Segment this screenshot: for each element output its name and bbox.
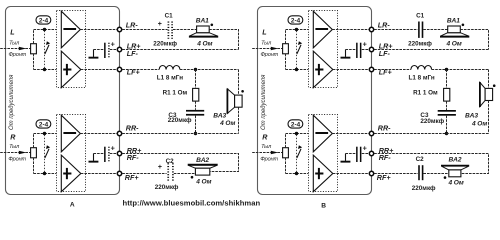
capacitor C3 (A) bbox=[168, 110, 204, 124]
wire op-amp U1 out to LR- bbox=[80, 29, 117, 31]
wire C1 to BA1 (A) bbox=[173, 29, 197, 31]
svg-text:Фронт: Фронт bbox=[260, 157, 278, 163]
svg-text:RF-: RF- bbox=[127, 153, 140, 162]
svg-text:Фронт: Фронт bbox=[8, 157, 26, 163]
svg-text:BA1: BA1 bbox=[447, 17, 460, 24]
svg-text:RF+: RF+ bbox=[125, 173, 140, 182]
svg-text:LF+: LF+ bbox=[127, 68, 141, 77]
svg-text:От предусилителя: От предусилителя bbox=[9, 74, 15, 130]
wire LR- row B bbox=[374, 29, 418, 31]
wire R1 to C3 (A) bbox=[195, 101, 197, 110]
svg-text:C1: C1 bbox=[165, 12, 174, 19]
svg-text:BA1: BA1 bbox=[196, 17, 209, 24]
inductor L1 (A) bbox=[159, 66, 180, 70]
svg-text:L1 8 мГн: L1 8 мГн bbox=[409, 74, 435, 81]
wire op-amp U3 out to LF+ bbox=[333, 69, 369, 71]
wire RR+ row A bbox=[122, 154, 238, 172]
svg-text:Тыл: Тыл bbox=[261, 41, 272, 47]
svg-text:LF-: LF- bbox=[379, 49, 391, 58]
wire op-amp U4 out to RR- bbox=[332, 133, 369, 135]
wire junction down to R1 (B) bbox=[446, 70, 448, 89]
capacitor to ground R (box B) bbox=[341, 143, 370, 162]
svg-text:BA3: BA3 bbox=[465, 112, 478, 119]
svg-text:А: А bbox=[70, 202, 75, 209]
svg-text:RR-: RR- bbox=[378, 123, 391, 132]
wire RF+ row B bbox=[374, 173, 418, 175]
capacitor C1 (A, dotted) bbox=[153, 12, 177, 47]
svg-text:Фронт: Фронт bbox=[261, 52, 279, 58]
svg-text:L: L bbox=[262, 28, 266, 37]
input attenuator R (box B) bbox=[252, 120, 308, 175]
head unit box B bbox=[258, 7, 372, 195]
wire BA3 down to RR- row (B) bbox=[488, 101, 490, 134]
capacitor C2 (B) bbox=[412, 156, 436, 192]
terminal LR- (B) bbox=[369, 27, 373, 31]
svg-text:C2: C2 bbox=[166, 158, 175, 165]
svg-text:RF-: RF- bbox=[379, 153, 392, 162]
svg-text:4 Ом: 4 Ом bbox=[471, 121, 487, 128]
wire C3 to RR- row (B) bbox=[446, 116, 448, 134]
resistor R1 (A) bbox=[193, 88, 199, 101]
wire LF+ row A bbox=[122, 69, 159, 71]
wire C2 to BA2 (A) bbox=[174, 173, 196, 175]
wire C2 to BA2 (B) bbox=[423, 173, 448, 175]
svg-text:RR-: RR- bbox=[126, 123, 139, 132]
svg-text:220мкф: 220мкф bbox=[408, 41, 432, 48]
terminal RR+/RF- (A) bbox=[117, 151, 121, 155]
svg-text:4 Ом: 4 Ом bbox=[448, 179, 464, 186]
svg-text:+: + bbox=[158, 21, 162, 28]
svg-text:220мкф: 220мкф bbox=[168, 117, 192, 124]
node junction C3/RR- (A) bbox=[194, 132, 197, 135]
svg-text:BA2: BA2 bbox=[449, 157, 462, 164]
dotted plate of capacitor L (box A) bbox=[108, 43, 110, 58]
wire R1 to C3 (B) bbox=[446, 101, 448, 110]
speaker BA2 (B) bbox=[441, 157, 469, 187]
terminal RR- (B) bbox=[369, 131, 373, 135]
svg-text:http://www.bluesmobil.com/shik: http://www.bluesmobil.com/shikhman bbox=[123, 198, 261, 207]
svg-text:R1 1 Ом: R1 1 Ом bbox=[163, 89, 188, 96]
solid plate of capacitor R (box B) bbox=[360, 147, 362, 162]
wire LF+ row B bbox=[374, 69, 411, 71]
svg-text:В: В bbox=[321, 202, 326, 209]
svg-text:LF+: LF+ bbox=[379, 68, 393, 77]
terminal LF+ (A) bbox=[117, 67, 121, 71]
head unit box A bbox=[6, 7, 120, 195]
wire BA1 right loop (B) bbox=[460, 30, 488, 50]
terminal LR+/LF- (B) bbox=[369, 47, 373, 51]
capacitor to ground L (box B) bbox=[341, 39, 370, 58]
speaker BA3 (B) bbox=[465, 82, 496, 128]
speaker BA1 (A) bbox=[189, 17, 218, 47]
svg-text:BA3: BA3 bbox=[213, 112, 226, 119]
speaker BA2 (A) bbox=[188, 157, 218, 186]
wire RR+ row B bbox=[374, 154, 488, 174]
wire RF+ row A bbox=[122, 173, 166, 175]
wire down to BA3 (A) bbox=[238, 70, 240, 96]
node junction C3/RR- (B) bbox=[445, 132, 448, 135]
svg-text:220мкф: 220мкф bbox=[420, 118, 444, 125]
input attenuator R (box A) bbox=[0, 120, 56, 175]
svg-text:C1: C1 bbox=[416, 12, 425, 19]
svg-text:От предусилителя: От предусилителя bbox=[261, 74, 267, 130]
capacitor C1 (B) bbox=[408, 12, 432, 47]
wire L1 to BA3 (A) bbox=[180, 69, 239, 71]
wire junction down to R1 (A) bbox=[195, 70, 197, 89]
svg-text:4 Ом: 4 Ом bbox=[195, 179, 211, 186]
op-amp U3 (L channel, box B) bbox=[309, 11, 338, 88]
node junction L1/R1 (B) bbox=[445, 68, 448, 71]
svg-text:RF+: RF+ bbox=[377, 173, 392, 182]
labels group B bbox=[260, 20, 394, 209]
capacitor C2 (A, dotted) bbox=[155, 158, 179, 191]
input attenuator L (box B) bbox=[252, 16, 308, 71]
resistor R1 (B) bbox=[444, 88, 450, 101]
svg-text:4 Ом: 4 Ом bbox=[219, 120, 235, 127]
wire op-amp U3 out to LR- bbox=[332, 29, 369, 31]
wire C1 to BA1 (B) bbox=[423, 29, 447, 31]
wire op-amp U2 out to RR- bbox=[80, 133, 117, 135]
wire BA1 right loop (A) bbox=[209, 30, 238, 50]
svg-text:R: R bbox=[262, 132, 268, 141]
svg-text:Тыл: Тыл bbox=[9, 41, 20, 47]
terminal LR+/LF- (A) bbox=[117, 47, 121, 51]
svg-text:LR-: LR- bbox=[378, 20, 391, 29]
capacitor to ground R (box A) bbox=[89, 143, 118, 162]
svg-text:4 Ом: 4 Ом bbox=[196, 40, 212, 47]
terminal RR+/RF- (B) bbox=[369, 151, 373, 155]
inductor L1 (B) bbox=[411, 66, 432, 70]
speaker BA3 (A) bbox=[213, 89, 244, 127]
svg-text:LF-: LF- bbox=[127, 49, 139, 58]
svg-text:C2: C2 bbox=[416, 156, 425, 163]
svg-text:Тыл: Тыл bbox=[9, 144, 20, 150]
wire op-amp U1 out to LF+ bbox=[81, 69, 117, 71]
node junction L1/R1 (A) bbox=[194, 68, 197, 71]
svg-text:L1 8 мГн: L1 8 мГн bbox=[157, 74, 183, 81]
terminal RF+ (A) bbox=[117, 171, 121, 175]
wire RR- row B bbox=[374, 133, 488, 135]
capacitor C3 (B) bbox=[420, 110, 456, 125]
op-amp U1 (L channel, box A) bbox=[57, 11, 86, 88]
svg-text:R: R bbox=[10, 132, 16, 141]
svg-text:4 Ом: 4 Ом bbox=[446, 40, 462, 47]
svg-text:220мкф: 220мкф bbox=[153, 41, 177, 48]
wire op-amp U4 out to RF+ bbox=[333, 173, 369, 175]
wire LR+ row B bbox=[374, 49, 488, 51]
svg-text:LR-: LR- bbox=[126, 20, 139, 29]
svg-text:L: L bbox=[10, 28, 14, 37]
wire L1 to BA3 (B) bbox=[432, 69, 489, 71]
svg-text:BA2: BA2 bbox=[196, 157, 209, 164]
svg-text:Тыл: Тыл bbox=[261, 144, 272, 150]
svg-text:R1 1 Ом: R1 1 Ом bbox=[413, 89, 438, 96]
svg-text:220мкф: 220мкф bbox=[155, 184, 179, 191]
speaker BA1 (B) bbox=[440, 17, 469, 47]
terminal RR- (A) bbox=[117, 131, 121, 135]
wire C3 to RR- row (A) bbox=[195, 116, 197, 134]
wire BA3 down to RR- row (A) bbox=[238, 107, 240, 133]
svg-text:+: + bbox=[158, 164, 162, 171]
dotted plate of capacitor R (box A) bbox=[108, 147, 110, 162]
wire LR- row A bbox=[122, 29, 167, 31]
wire down to BA3 (B) bbox=[488, 70, 490, 89]
terminal LR- (A) bbox=[117, 27, 121, 31]
solid plate of capacitor L (box B) bbox=[360, 43, 362, 58]
input attenuator L (box A) bbox=[0, 16, 56, 71]
svg-text:220мкф: 220мкф bbox=[412, 185, 436, 192]
wire op-amp U2 out to RF+ bbox=[81, 173, 117, 175]
labels group A bbox=[8, 20, 142, 208]
capacitor to ground L (box A) bbox=[89, 39, 118, 58]
wire LR+ row A bbox=[122, 49, 238, 51]
terminal LF+ (B) bbox=[369, 67, 373, 71]
svg-text:Фронт: Фронт bbox=[9, 52, 27, 58]
op-amp U4 (R channel, box B) bbox=[309, 115, 338, 192]
wire RR- row A bbox=[122, 133, 238, 135]
op-amp U2 (R channel, box A) bbox=[57, 115, 86, 192]
terminal RF+ (B) bbox=[369, 171, 373, 175]
